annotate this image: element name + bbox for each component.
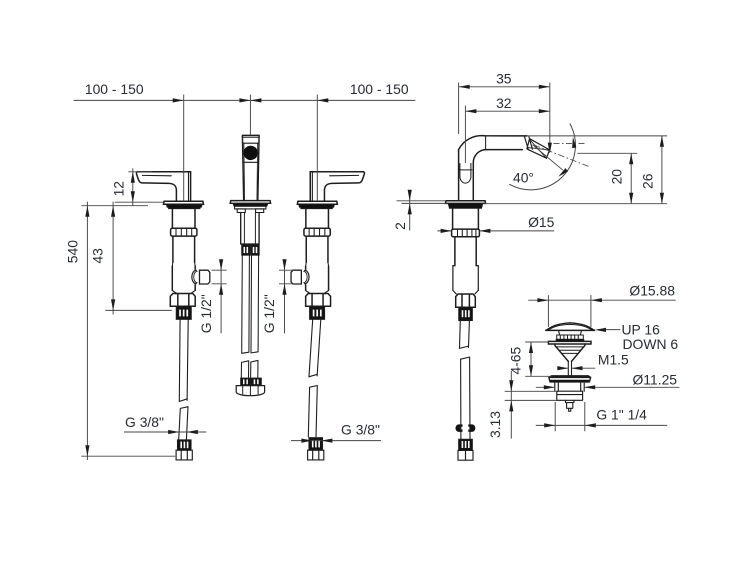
svg-text:40°: 40° <box>513 169 534 185</box>
svg-text:12: 12 <box>110 181 126 197</box>
right hose upper segment <box>309 319 321 376</box>
svg-text:3.13: 3.13 <box>487 411 503 438</box>
svg-text:M1.5: M1.5 <box>598 351 629 367</box>
right hose lower segment <box>308 386 317 437</box>
svg-text:100 - 150: 100 - 150 <box>85 81 144 97</box>
lever handle top and stem right edge <box>138 172 191 202</box>
extension line left unit centre <box>183 95 185 202</box>
dim 4-65 extension lines <box>525 342 551 376</box>
side hose end knurled nut (dark) <box>459 439 473 450</box>
svg-text:Ø15: Ø15 <box>528 214 555 230</box>
drain flange plate <box>548 341 591 344</box>
svg-text:100 - 150: 100 - 150 <box>350 81 409 97</box>
knurled hose nut (dark) <box>176 306 191 319</box>
flange dark band <box>166 204 202 209</box>
centre shank base (perspective) <box>236 386 264 396</box>
valve upper body <box>172 209 195 229</box>
top dim arrows <box>173 98 184 102</box>
drain cone inner lines <box>556 347 583 354</box>
side body upper <box>453 208 479 229</box>
bend seam line <box>485 136 487 150</box>
spout top cap line <box>243 136 260 138</box>
dim 32 left extension <box>464 106 466 164</box>
tilted spout tip outline <box>527 139 550 159</box>
escutcheon flange plate <box>164 201 204 204</box>
svg-text:G 1" 1/4: G 1" 1/4 <box>596 407 647 423</box>
svg-text:4-65: 4-65 <box>508 347 524 375</box>
svg-text:G 3/8": G 3/8" <box>125 414 164 430</box>
dim 2 extension lines <box>397 201 447 204</box>
svg-text:26: 26 <box>639 173 655 189</box>
drain knurled ring <box>557 335 584 339</box>
top dimension line 100-150 <box>74 99 416 101</box>
side outlet ball neck (double arc) <box>192 270 197 283</box>
svg-text:UP 16: UP 16 <box>622 321 661 337</box>
base line extension right <box>484 203 667 205</box>
valve mid body <box>173 236 195 262</box>
dim diam 11.25 line <box>536 386 680 388</box>
svg-text:G 1/2": G 1/2" <box>198 294 214 333</box>
dim 43 vertical line <box>112 202 114 315</box>
taper to hex nut <box>172 290 195 293</box>
side mid body <box>455 237 476 266</box>
svg-text:G 3/8": G 3/8" <box>341 422 380 438</box>
hex nut <box>170 294 195 307</box>
handle inner top line <box>142 174 171 176</box>
side taper <box>453 290 478 294</box>
extension line centre unit <box>249 95 251 136</box>
dim diam15 lines <box>437 230 554 232</box>
dim G 1/2 left: vertical line and arrows <box>220 263 222 334</box>
drain tail stem and knob <box>566 400 574 411</box>
spout aerator dot (filled) <box>244 146 258 160</box>
diam 15.88 extension lines <box>548 295 591 327</box>
dim 4-65 vertical line <box>530 342 532 376</box>
svg-text:32: 32 <box>496 95 512 111</box>
dim 540 extension lines <box>81 206 175 457</box>
dim 3.13 side lines <box>505 391 557 400</box>
handle stem inner right line <box>188 172 190 201</box>
drain cap dome inner <box>548 324 592 330</box>
swivel radius line <box>533 145 563 171</box>
extension line right unit centre <box>316 95 318 202</box>
left hose lower segment <box>179 407 188 440</box>
centre flange plate <box>230 201 270 204</box>
centre pipe nuts (dark) <box>241 378 251 386</box>
dim 20 top extension <box>577 152 637 154</box>
svg-text:43: 43 <box>90 248 106 264</box>
centre flange step <box>235 206 266 209</box>
dim 2 vertical line <box>409 192 411 231</box>
drain dark band <box>556 339 584 341</box>
handle left end, underside and stem left edge <box>136 172 176 202</box>
valve block <box>172 266 195 290</box>
riser inner tube capsule <box>460 164 471 184</box>
side hex nut <box>456 294 476 307</box>
dim 540 vertical line <box>86 202 88 460</box>
left hose upper segment <box>179 319 188 401</box>
side hose lower segment <box>461 357 470 439</box>
right hose end connector <box>308 450 324 460</box>
centre supply pipes <box>242 255 259 353</box>
svg-text:Ø11.25: Ø11.25 <box>633 371 678 387</box>
dim 26 top extension <box>527 135 667 137</box>
svg-text:20: 20 <box>609 169 625 185</box>
centre shank knurled band (dark) <box>242 245 250 255</box>
side outlet cylinder <box>200 270 210 284</box>
spout joint double lines <box>524 136 532 150</box>
side knurled hose nut (dark) <box>459 307 473 320</box>
svg-text:540: 540 <box>65 240 81 263</box>
side view riser inner edge and arm underside <box>473 150 522 201</box>
right hose end knurled nut (dark) <box>309 438 323 451</box>
side knurled ring <box>452 229 480 237</box>
leader UP16/DOWN6 <box>598 329 621 331</box>
drain cap neck <box>559 331 582 335</box>
dim 12 extension lines <box>115 172 164 202</box>
side flange plate <box>445 201 485 204</box>
centre shank nut tabs <box>237 209 264 213</box>
dim M1.5 arrows <box>558 367 595 369</box>
drain stem <box>568 361 571 375</box>
dim G 1 1/4 line <box>536 424 667 426</box>
svg-text:G 1/2": G 1/2" <box>261 294 277 333</box>
spout body inner edge lines <box>244 143 258 200</box>
centre supply pipes lower segment <box>241 360 258 378</box>
drain cap dome outer <box>546 323 595 330</box>
dim G 1/2 right: vertical line and arrows <box>284 263 286 334</box>
shoulder step <box>172 262 195 266</box>
left hose end knurled nut (dark) <box>177 440 191 450</box>
dim diam 15.88 line <box>528 299 676 301</box>
side hose clip ears <box>455 424 462 432</box>
tip fan lines <box>528 141 550 159</box>
drain cone <box>555 344 585 361</box>
side block <box>453 266 478 291</box>
svg-text:Ø15.88: Ø15.88 <box>629 283 675 299</box>
drain body <box>555 382 584 391</box>
riser inner tube water line <box>459 169 472 171</box>
dim 26 vertical line <box>661 136 663 204</box>
centre spout body <box>242 135 259 200</box>
dim 3.13 vertical line <box>510 371 512 439</box>
side view riser outer edge and top of arm <box>459 136 527 201</box>
side flange dark band <box>448 203 483 208</box>
dim 43 extension line bottom <box>105 309 172 311</box>
drain locknut <box>557 391 583 400</box>
dim G 3/8 right <box>291 440 381 442</box>
side hose upper segment <box>459 321 469 349</box>
svg-text:35: 35 <box>496 70 512 86</box>
dim 32 line <box>465 110 549 112</box>
svg-text:DOWN 6: DOWN 6 <box>623 336 679 352</box>
dim G 1 1/4 extension lines <box>555 402 585 431</box>
arm axis dash-dot line <box>554 143 586 145</box>
knurled ring <box>171 228 197 236</box>
left/right valve unit master (drawn at left position) <box>136 172 209 320</box>
right valve unit (mirror of master about x=250.42) <box>291 172 364 320</box>
dim 35/32 right extension with arrow to tip <box>549 83 551 151</box>
drain cap base line <box>546 329 595 331</box>
centre flange dark band <box>233 203 268 206</box>
dim 35 line <box>459 86 550 88</box>
side hose end connector <box>458 450 473 460</box>
dim 12 vertical line <box>132 168 134 206</box>
drain lower flange <box>549 376 591 382</box>
dim G 3/8 left <box>124 431 206 433</box>
spout lower band line <box>243 161 258 163</box>
dim 20 vertical line <box>630 153 632 203</box>
dim 35 left extension <box>458 83 460 135</box>
svg-text:2: 2 <box>392 222 408 230</box>
spout upper band line <box>243 142 259 144</box>
centre shank sleeve <box>241 213 259 245</box>
swivel arc 40deg <box>509 124 575 190</box>
left hose end connector <box>176 450 192 460</box>
tip axis dash-dot line <box>534 145 590 167</box>
